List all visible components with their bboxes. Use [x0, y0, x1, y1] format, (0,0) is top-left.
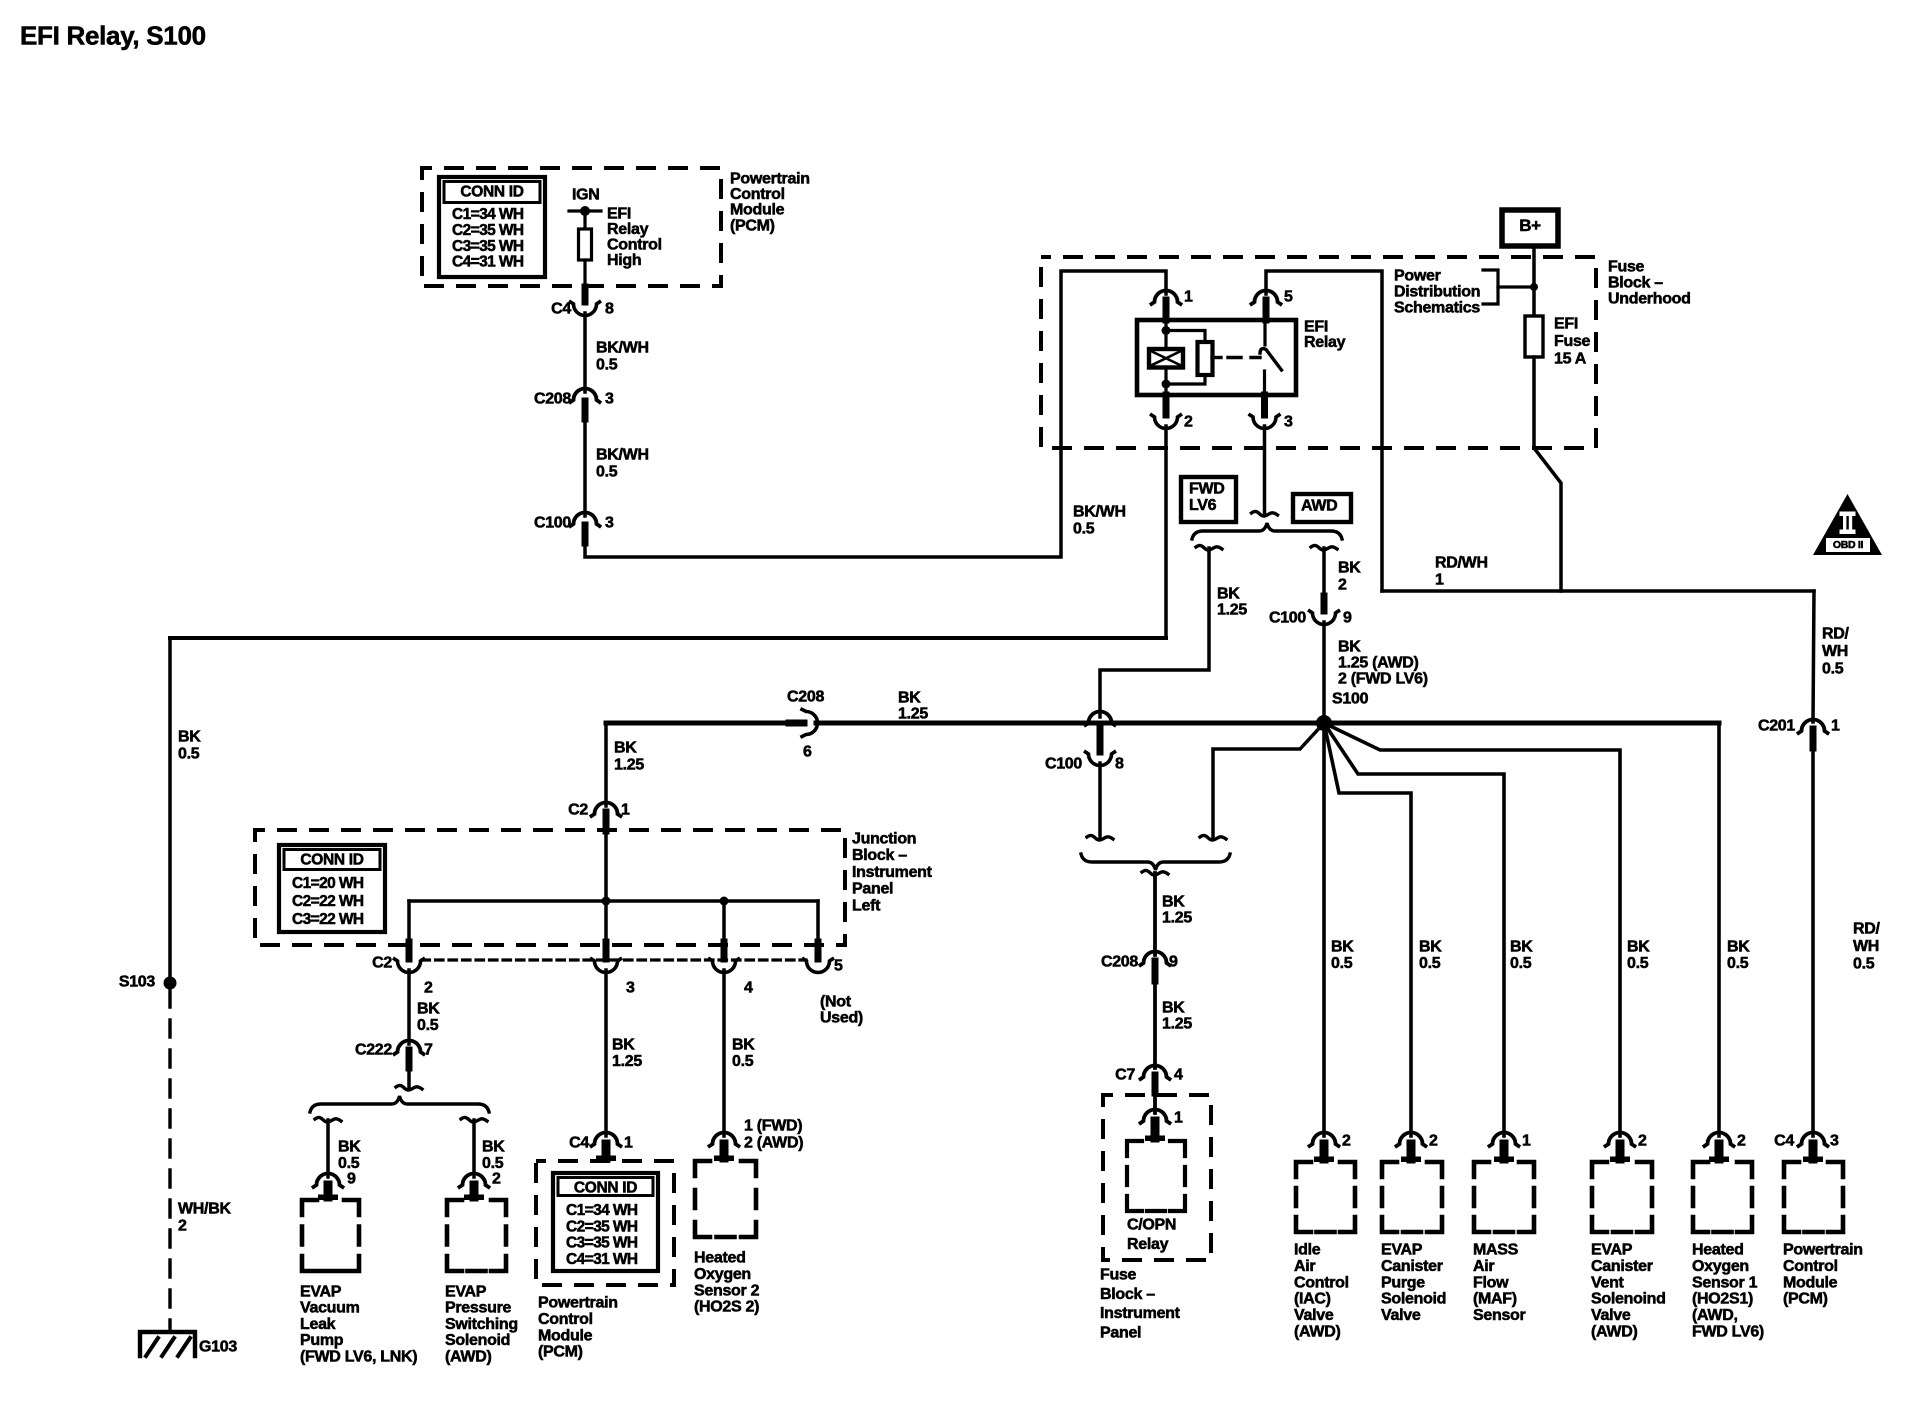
svg-text:LV6: LV6	[1189, 497, 1217, 514]
svg-text:WH: WH	[1853, 938, 1879, 955]
svg-text:Junction: Junction	[852, 831, 916, 848]
svg-text:2: 2	[1638, 1133, 1647, 1150]
svg-text:Instrument: Instrument	[852, 864, 933, 881]
svg-text:High: High	[607, 252, 641, 269]
svg-text:Underhood: Underhood	[1608, 291, 1691, 308]
wire RD/WH 1 horizontal distribution	[1382, 589, 1814, 593]
wire C7-4 into fuse block IP	[1153, 1093, 1157, 1113]
resistor EFI relay control (PCM driver)	[579, 229, 592, 260]
svg-text:Used): Used)	[820, 1009, 863, 1026]
svg-text:C4=31 WH: C4=31 WH	[566, 1251, 638, 1268]
wire BK/WH 0.5 C208-3 to C100-3	[583, 419, 587, 516]
connector C208 pin 6 inline	[789, 720, 804, 727]
svg-text:1.25: 1.25	[1162, 1016, 1192, 1033]
svg-text:Air: Air	[1294, 1258, 1315, 1275]
svg-text:2: 2	[1342, 1133, 1351, 1150]
wire BK 1.25 trunk right of C208-6	[816, 721, 1324, 726]
CONN ID table PCM bottom	[553, 1173, 658, 1271]
svg-text:C208: C208	[787, 689, 824, 706]
svg-text:9: 9	[1343, 610, 1352, 627]
svg-text:2: 2	[178, 1218, 187, 1235]
svg-text:C1=34 WH: C1=34 WH	[566, 1202, 638, 1219]
svg-text:Module: Module	[730, 202, 785, 219]
CONN ID table PCM top	[439, 177, 545, 277]
svg-text:BK: BK	[1338, 560, 1361, 577]
wire-end squiggle C100-8 branch	[1087, 835, 1113, 840]
svg-text:Fuse: Fuse	[1100, 1267, 1137, 1284]
pin bar into C/OPN relay	[1151, 1121, 1160, 1138]
svg-text:1.25 (AWD): 1.25 (AWD)	[1338, 655, 1419, 672]
svg-text:(HO2S1): (HO2S1)	[1692, 1291, 1753, 1308]
svg-text:BK: BK	[1338, 639, 1361, 656]
svg-text:1: 1	[1831, 718, 1840, 735]
svg-text:0.5: 0.5	[1627, 955, 1649, 972]
svg-text:Valve: Valve	[1294, 1307, 1334, 1324]
bracket power distribution reference	[1483, 270, 1498, 304]
svg-text:3: 3	[1284, 414, 1293, 431]
relay C/OPN Relay dashed box	[1127, 1141, 1185, 1211]
node IGN tick and dot	[569, 209, 601, 212]
svg-text:Purge: Purge	[1381, 1274, 1425, 1291]
mechanical link dashes relay	[1228, 356, 1260, 359]
svg-text:Module: Module	[1783, 1274, 1838, 1291]
wire BK 1.25 trunk left segment	[606, 721, 793, 726]
wire C222-7 to pump option split	[407, 1068, 411, 1088]
svg-text:S100: S100	[1332, 691, 1369, 708]
connector EVAP vacuum leak pump pin 9	[314, 1174, 343, 1188]
svg-text:(MAF): (MAF)	[1473, 1291, 1517, 1308]
svg-text:Panel: Panel	[852, 881, 893, 898]
connector C2 pin 5 (not used)	[815, 942, 822, 959]
wire BK 1.25 C100-8 down to merge brace	[1098, 763, 1102, 838]
connector HO2S1 pin 2	[1705, 1133, 1734, 1147]
junction dot relay coil top	[1162, 326, 1171, 335]
svg-text:Sensor 2: Sensor 2	[694, 1282, 760, 1299]
wire-start squiggle EVAP vacuum pump branch	[315, 1117, 341, 1122]
svg-text:Left: Left	[852, 897, 881, 914]
svg-text:1.25: 1.25	[614, 757, 644, 774]
svg-text:3: 3	[605, 515, 614, 532]
svg-text:EFI: EFI	[1554, 316, 1578, 333]
svg-text:Heated: Heated	[694, 1250, 746, 1267]
svg-text:1: 1	[1184, 289, 1193, 306]
relay EFI Relay box U1	[1137, 320, 1296, 395]
svg-text:3: 3	[605, 391, 614, 408]
svg-text:BK: BK	[612, 1037, 635, 1054]
svg-text:C100: C100	[534, 515, 571, 532]
svg-text:5: 5	[834, 958, 843, 975]
svg-text:0.5: 0.5	[338, 1155, 360, 1172]
svg-text:C4: C4	[1774, 1133, 1794, 1150]
svg-text:Powertrain: Powertrain	[538, 1295, 618, 1312]
svg-text:Instrument: Instrument	[1100, 1305, 1181, 1322]
svg-text:BK: BK	[614, 740, 637, 757]
svg-text:(PCM): (PCM)	[730, 217, 775, 234]
wire BK 0.5 S100 to MAF sensor	[1324, 723, 1504, 1136]
svg-text:BK: BK	[482, 1139, 505, 1156]
node S100 splice	[1316, 715, 1332, 731]
svg-text:FWD LV6): FWD LV6)	[1692, 1324, 1764, 1341]
svg-text:MASS: MASS	[1473, 1242, 1519, 1259]
wire-start squiggle FWD LV6 branch	[1196, 545, 1222, 550]
svg-text:C3=35 WH: C3=35 WH	[452, 238, 524, 255]
svg-text:0.5: 0.5	[596, 464, 618, 481]
svg-text:Solenoid: Solenoid	[445, 1332, 510, 1349]
svg-text:EVAP: EVAP	[1381, 1242, 1423, 1259]
svg-text:Fuse: Fuse	[1608, 259, 1645, 276]
svg-text:Sensor: Sensor	[1473, 1307, 1526, 1324]
connector C7 pin 4	[1141, 1066, 1170, 1080]
wire WH/BK 2 dashed to G103	[168, 990, 171, 1331]
svg-text:Valve: Valve	[1591, 1307, 1631, 1324]
svg-text:3: 3	[1830, 1133, 1839, 1150]
svg-text:AWD: AWD	[1301, 498, 1337, 515]
connector relay pin 2	[1163, 395, 1170, 415]
svg-text:Valve: Valve	[1381, 1307, 1421, 1324]
svg-text:(HO2S 2): (HO2S 2)	[694, 1299, 759, 1316]
svg-text:BK: BK	[1217, 586, 1240, 603]
wire relay pin3 down to option split	[1263, 426, 1267, 513]
svg-text:BK: BK	[1727, 939, 1750, 956]
connector relay pin 5	[1252, 291, 1281, 305]
svg-text:7: 7	[424, 1042, 433, 1059]
svg-text:C7: C7	[1115, 1067, 1135, 1084]
wire coil to relay pin 2	[1164, 367, 1167, 395]
svg-text:0.5: 0.5	[1822, 661, 1844, 678]
svg-text:BK: BK	[1162, 894, 1185, 911]
svg-text:(PCM): (PCM)	[1783, 1291, 1828, 1308]
option box FWD LV6	[1181, 477, 1236, 522]
svg-text:B+: B+	[1519, 216, 1541, 235]
wire BK 1.25 FWD LV6 branch to C100-8	[1100, 548, 1209, 717]
brace option merge to C/OPN feed	[1081, 854, 1230, 870]
svg-text:1.25: 1.25	[612, 1053, 642, 1070]
connector MAF sensor pin 1	[1490, 1133, 1519, 1147]
svg-text:IGN: IGN	[572, 187, 600, 204]
svg-text:1: 1	[1174, 1110, 1183, 1127]
wire BK 0.5 S100 to EVAP purge solenoid	[1324, 723, 1411, 1136]
svg-text:9: 9	[347, 1171, 356, 1188]
svg-text:Heated: Heated	[1692, 1242, 1744, 1259]
svg-text:C3=22 WH: C3=22 WH	[292, 911, 364, 928]
svg-text:C208: C208	[1101, 954, 1138, 971]
component EVAP Canister Vent Solenoid Valve box	[1592, 1162, 1652, 1232]
component Heated Oxygen Sensor 2 box	[695, 1161, 756, 1237]
wire-start squiggle merged wire	[1142, 870, 1168, 875]
svg-text:1: 1	[621, 802, 630, 819]
svg-text:Canister: Canister	[1381, 1258, 1443, 1275]
connector C4 pin 8	[582, 287, 589, 302]
svg-text:C1=34 WH: C1=34 WH	[452, 206, 524, 223]
connector C201 pin 1	[1799, 720, 1828, 734]
wire BK 0.5 to EVAP pressure switching solenoid	[472, 1120, 476, 1177]
svg-text:C208: C208	[534, 391, 571, 408]
component Heated Oxygen Sensor 1 box	[1693, 1162, 1752, 1232]
svg-text:Sensor 1: Sensor 1	[1692, 1274, 1758, 1291]
svg-text:Solenoind: Solenoind	[1591, 1291, 1666, 1308]
connector C100 pin 9	[1321, 596, 1328, 611]
junction dot bus at pin4	[720, 897, 729, 906]
component EVAP Vacuum Leak Pump box	[302, 1200, 359, 1271]
svg-text:0.5: 0.5	[178, 746, 200, 763]
svg-text:Switching: Switching	[445, 1316, 518, 1333]
svg-text:Oxygen: Oxygen	[1692, 1258, 1749, 1275]
component EVAP Canister Purge Solenoid Valve box	[1382, 1162, 1442, 1232]
svg-text:2 (AWD): 2 (AWD)	[744, 1135, 803, 1152]
svg-text:BK: BK	[1627, 939, 1650, 956]
svg-text:(PCM): (PCM)	[538, 1344, 583, 1361]
svg-text:C4: C4	[551, 301, 571, 318]
svg-text:BK: BK	[1419, 939, 1442, 956]
svg-text:2: 2	[1184, 414, 1193, 431]
wire BK 1.25 trunk corner to C2-1	[604, 723, 608, 806]
wire IGN dot to resistor	[583, 211, 586, 230]
svg-text:EVAP: EVAP	[445, 1284, 487, 1301]
svg-text:2 (FWD LV6): 2 (FWD LV6)	[1338, 671, 1428, 688]
wire trunk S100 to HO2S1 corner	[1324, 721, 1719, 726]
svg-text:Air: Air	[1473, 1258, 1494, 1275]
svg-text:Solenoid: Solenoid	[1381, 1291, 1446, 1308]
wire B+ to EFI fuse	[1532, 246, 1536, 320]
svg-text:Block –: Block –	[852, 847, 907, 864]
connector EVAP vent solenoid pin 2	[1606, 1133, 1635, 1147]
svg-text:Relay: Relay	[1304, 334, 1346, 351]
svg-text:0.5: 0.5	[1727, 955, 1749, 972]
svg-text:(AWD): (AWD)	[1591, 1324, 1638, 1341]
svg-text:C/OPN: C/OPN	[1127, 1217, 1176, 1234]
svg-text:OBD II: OBD II	[1833, 539, 1864, 551]
svg-text:Block –: Block –	[1100, 1286, 1155, 1303]
svg-text:BK: BK	[338, 1139, 361, 1156]
svg-text:0.5: 0.5	[732, 1053, 754, 1070]
svg-text:Vacuum: Vacuum	[300, 1300, 360, 1317]
svg-text:8: 8	[605, 301, 614, 318]
svg-text:1.25: 1.25	[1162, 910, 1192, 927]
wire BK 0.5 S100 to EVAP vent solenoid	[1324, 723, 1620, 1136]
wire BK 0.5 trunk corner down to HO2S1	[1717, 723, 1721, 1136]
svg-text:C1=20 WH: C1=20 WH	[292, 875, 364, 892]
svg-text:BK: BK	[1510, 939, 1533, 956]
component EVAP Pressure Switching Solenoid box	[447, 1200, 506, 1271]
junction dot B+ tap	[1530, 283, 1538, 291]
svg-text:Control: Control	[730, 186, 785, 203]
svg-text:1: 1	[1435, 572, 1444, 589]
svg-text:BK/WH: BK/WH	[1073, 504, 1126, 521]
wire BK/WH 0.5 C4-8 to C208-3	[583, 313, 587, 392]
svg-text:BK: BK	[898, 690, 921, 707]
wire BK/WH relay pin2 down to trunk	[1164, 426, 1168, 638]
connector relay pin 3	[1261, 395, 1268, 415]
wire BK 0.5 C2-4 to HO2S2	[722, 970, 726, 1136]
svg-text:1: 1	[1522, 1133, 1531, 1150]
svg-text:BK: BK	[417, 1001, 440, 1018]
svg-text:EVAP: EVAP	[300, 1284, 342, 1301]
svg-text:RD/: RD/	[1822, 626, 1850, 643]
svg-text:Pressure: Pressure	[445, 1300, 511, 1317]
svg-text:8: 8	[1115, 756, 1124, 773]
connector C208 pin 3	[571, 389, 600, 403]
wire relay fixed contact to pin 3	[1263, 371, 1266, 395]
connector C2 pin 4	[721, 942, 728, 959]
svg-text:2: 2	[1338, 577, 1347, 594]
wire BK 0.5 left drop to S103	[168, 638, 172, 983]
svg-text:BK/WH: BK/WH	[596, 340, 649, 357]
svg-text:C2: C2	[568, 802, 588, 819]
svg-text:C201: C201	[1758, 718, 1795, 735]
wire BK 1.25 merged down to C208-9	[1153, 873, 1157, 955]
wire BK 2 AWD branch to C100-9	[1322, 548, 1326, 598]
svg-text:CONN ID: CONN ID	[574, 1180, 637, 1197]
svg-text:Powertrain: Powertrain	[1783, 1242, 1863, 1259]
svg-text:EVAP: EVAP	[1591, 1242, 1633, 1259]
svg-text:1 (FWD): 1 (FWD)	[744, 1118, 802, 1135]
svg-text:Control: Control	[538, 1311, 593, 1328]
wire BK 1.25(AWD)/2(FWD LV6) C100-9 to S100	[1322, 622, 1326, 723]
connector C4 pin 1	[592, 1133, 621, 1147]
wire-start squiggle AWD branch	[1311, 545, 1337, 550]
wire coil bottom link	[1166, 375, 1205, 384]
svg-text:1.25: 1.25	[1217, 602, 1247, 619]
svg-text:2: 2	[1429, 1133, 1438, 1150]
wire junction block internal bus	[604, 831, 608, 901]
svg-text:2: 2	[1737, 1133, 1746, 1150]
ground G103 symbol	[140, 1332, 195, 1356]
svg-text:Powertrain: Powertrain	[730, 171, 810, 188]
CONN ID table junction block	[279, 845, 385, 932]
module PCM top dashed box	[422, 168, 721, 286]
svg-text:0.5: 0.5	[482, 1155, 504, 1172]
svg-text:0.5: 0.5	[1331, 955, 1353, 972]
module Fuse Block - Underhood dashed box	[1041, 257, 1596, 448]
connector PCM C4 pin 3	[1799, 1133, 1828, 1147]
connector relay pin 1	[1152, 291, 1181, 305]
switch relay contact blade	[1263, 320, 1266, 345]
svg-text:3: 3	[626, 980, 635, 997]
svg-text:BK: BK	[732, 1037, 755, 1054]
connector C100 pin 8	[1086, 712, 1115, 726]
module Junction Block - Instrument Panel Left dashed box	[255, 830, 845, 945]
svg-text:Leak: Leak	[300, 1316, 336, 1333]
mechanical link tick relay	[1212, 356, 1221, 359]
svg-text:Relay: Relay	[1127, 1236, 1169, 1253]
svg-text:C222: C222	[355, 1042, 392, 1059]
svg-text:0.5: 0.5	[1073, 521, 1095, 538]
wire relay coil branch top	[1164, 320, 1167, 350]
connector C2 pin 2	[406, 942, 413, 959]
connector fuse block IP pin 1	[1141, 1110, 1170, 1124]
svg-text:C2=35 WH: C2=35 WH	[452, 222, 524, 239]
svg-text:5: 5	[1284, 289, 1293, 306]
svg-text:2: 2	[424, 980, 433, 997]
module PCM bottom dashed box	[536, 1161, 674, 1285]
svg-text:C3=35 WH: C3=35 WH	[566, 1235, 638, 1252]
connector C222 pin 7	[395, 1041, 424, 1055]
svg-text:Control: Control	[1294, 1274, 1349, 1291]
wire relay pin5 feed	[1266, 271, 1382, 591]
brace option split FWD/AWD	[1192, 523, 1342, 539]
svg-text:9: 9	[1169, 954, 1178, 971]
junction dot relay coil bottom	[1162, 380, 1171, 389]
wire BK 1.25 C2-3 to PCM C4-1	[604, 970, 608, 1136]
svg-text:Module: Module	[538, 1327, 593, 1344]
wire BK 1.25 C208-9 to C7-4	[1153, 981, 1157, 1068]
svg-text:Panel: Panel	[1100, 1324, 1141, 1341]
svg-text:RD/: RD/	[1853, 921, 1881, 938]
connector C2 pin 3	[603, 942, 610, 959]
svg-text:0.5: 0.5	[1510, 955, 1532, 972]
svg-text:S103: S103	[119, 974, 156, 991]
wire BK 0.5 C2-2 to C222-7	[407, 970, 411, 1044]
svg-text:6: 6	[803, 744, 812, 761]
svg-text:C2=22 WH: C2=22 WH	[292, 893, 364, 910]
svg-text:Power: Power	[1394, 268, 1441, 285]
wire S100 branch to merge brace	[1213, 723, 1324, 838]
wire-end squiggle pin3	[1252, 511, 1278, 516]
svg-text:4: 4	[744, 980, 753, 997]
svg-text:0.5: 0.5	[417, 1017, 439, 1034]
svg-text:FWD: FWD	[1189, 481, 1225, 498]
relay coil (crossed box) L1	[1149, 349, 1183, 368]
symbol OBD II triangle	[1813, 494, 1882, 555]
wire-end squiggle S100 merge branch	[1200, 835, 1226, 840]
svg-text:WH/BK: WH/BK	[178, 1201, 231, 1218]
module Fuse Block - Instrument Panel dashed box	[1103, 1095, 1211, 1260]
svg-text:(AWD): (AWD)	[1294, 1324, 1341, 1341]
connector C208 pin 9	[1141, 952, 1170, 965]
svg-text:EFI: EFI	[607, 206, 631, 223]
svg-text:CONN ID: CONN ID	[300, 852, 363, 869]
svg-text:Fuse: Fuse	[1554, 333, 1591, 350]
svg-text:C2=35 WH: C2=35 WH	[566, 1218, 638, 1235]
svg-text:Flow: Flow	[1473, 1274, 1509, 1291]
brace option split EVAP pumps	[310, 1096, 489, 1112]
connector EVAP pressure switching solenoid pin 2	[460, 1174, 489, 1188]
svg-text:(IAC): (IAC)	[1294, 1291, 1331, 1308]
wire RD/WH 0.5 C201 to PCM C4-3	[1811, 748, 1815, 1136]
connector IAC valve pin 2	[1310, 1133, 1339, 1147]
fuse EFI Fuse 15 A	[1525, 316, 1543, 357]
svg-text:15 A: 15 A	[1554, 351, 1587, 368]
svg-text:Control: Control	[607, 237, 662, 254]
svg-text:Block –: Block –	[1608, 275, 1663, 292]
wire C100-3 to relay pin 1 feed	[585, 271, 1166, 557]
svg-text:BK: BK	[1331, 939, 1354, 956]
svg-text:1.25: 1.25	[898, 706, 928, 723]
svg-text:Canister: Canister	[1591, 1258, 1653, 1275]
svg-text:C100: C100	[1045, 756, 1082, 773]
svg-text:Distribution: Distribution	[1394, 284, 1480, 301]
svg-text:Control: Control	[1783, 1258, 1838, 1275]
wire RD/WH 0.5 down to C201	[1813, 591, 1814, 722]
svg-text:(Not: (Not	[820, 994, 852, 1011]
svg-text:Oxygen: Oxygen	[694, 1266, 751, 1283]
svg-text:EFI: EFI	[1304, 319, 1328, 336]
wire ground trunk y638	[170, 636, 1166, 640]
svg-text:1: 1	[624, 1135, 633, 1152]
wire EFI fuse down to junction y591	[1534, 357, 1561, 591]
wire resistor to PCM pin C4-8	[583, 260, 586, 290]
svg-text:Vent: Vent	[1591, 1274, 1625, 1291]
wire BK 0.5 S100 to IAC valve	[1322, 723, 1326, 1136]
svg-text:Relay: Relay	[607, 221, 649, 238]
svg-text:Pump: Pump	[300, 1332, 344, 1349]
svg-text:C4=31 WH: C4=31 WH	[452, 254, 524, 271]
svg-text:CONN ID: CONN ID	[460, 184, 523, 201]
svg-text:0.5: 0.5	[1419, 955, 1441, 972]
connector C2 pin 1	[592, 803, 621, 817]
wire coil parallel resistor top link	[1166, 331, 1205, 345]
connector HO2S2 pin 1(FWD)/2(AWD)	[710, 1133, 739, 1147]
